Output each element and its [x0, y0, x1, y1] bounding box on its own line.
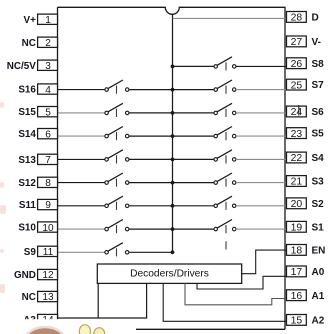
wire: switch S13 throw to D bus [129, 158, 173, 160]
label S15 (pin 5) [18, 107, 36, 118]
wire: switch S10 throw to D bus [129, 228, 173, 230]
decorative: yellow egg artifact 1 [79, 325, 90, 334]
wire: D bus to switch S4 pole [173, 158, 214, 160]
label S12 (pin 8) [18, 178, 36, 189]
decorative: pink edge smudge [0, 182, 4, 188]
label V- (pin 27) [312, 37, 321, 48]
junction node row 2 on D bus [171, 88, 175, 92]
label NC (pin 13) [22, 292, 36, 303]
svg-text:18: 18 [291, 246, 303, 257]
pin 7 box (S13) [38, 154, 58, 166]
label EN (pin 18) [312, 246, 326, 257]
wire: switch S9 throw to D bus [129, 251, 173, 253]
switch S11 (SPST analog switch) [105, 196, 129, 207]
svg-text:S14: S14 [18, 129, 36, 140]
wire: A2 pin 15 to decoder [163, 283, 286, 321]
svg-text:15: 15 [291, 316, 303, 327]
svg-text:EN: EN [312, 246, 326, 257]
switch S1 (SPST analog switch) [214, 220, 236, 231]
svg-text:V-: V- [312, 37, 321, 48]
svg-text:5: 5 [45, 107, 51, 118]
junction node row 7 on D bus [171, 204, 175, 208]
switch S15 (SPST analog switch) [105, 103, 129, 114]
pin 25 box (S7) [287, 79, 307, 91]
svg-text:A1: A1 [312, 291, 325, 302]
pin 19 box (S1) [287, 221, 307, 233]
wire: switch S4 throw to pin 22 [236, 158, 287, 160]
junction node row 8 on D bus [171, 227, 175, 231]
label NC (pin 2) [22, 38, 36, 49]
switch S16 (SPST analog switch) [105, 80, 129, 91]
wire: D bus to switch S3 pole [173, 182, 214, 184]
svg-text:1: 1 [45, 15, 51, 26]
wire: switch S5 throw to pin 23 [236, 135, 287, 137]
svg-text:22: 22 [291, 153, 303, 164]
pin 14 box (A3) [38, 314, 58, 326]
decorative: pink edge smudge [0, 284, 5, 293]
dashed control line from decoder (right switch bank) [225, 62, 227, 249]
pin 12 box (GND) [38, 269, 58, 281]
pin 6 box (S14) [38, 129, 58, 141]
decorative: pink edge smudge [0, 249, 4, 253]
svg-text:28: 28 [291, 13, 303, 24]
junction node row 9 on D bus [171, 250, 175, 254]
wire: D bus to switch S7 pole [173, 89, 214, 91]
switch S5 (SPST analog switch) [214, 127, 236, 138]
pin 1 box (V+) [38, 14, 58, 26]
switch S14 (SPST analog switch) [105, 127, 129, 138]
junction node row 1 on D bus [171, 65, 175, 69]
label S11 (pin 9) [19, 200, 37, 211]
svg-text:13: 13 [42, 292, 54, 303]
wire: pin 7 S13 stub to switch pole [58, 158, 105, 160]
pin 27 box (V-) [287, 36, 307, 48]
svg-text:S2: S2 [312, 199, 325, 210]
svg-text:23: 23 [291, 129, 303, 140]
switch S2 (SPST analog switch) [214, 196, 236, 207]
switch S4 (SPST analog switch) [214, 150, 236, 161]
pin 26 box (S8) [287, 58, 307, 70]
decorative: occluding white strip bottom-left [0, 319, 136, 334]
svg-text:20: 20 [291, 199, 303, 210]
label S5 (pin 23) [312, 129, 325, 140]
wire: switch S2 throw to pin 20 [236, 205, 287, 207]
wire: pin 10 S10 stub to switch pole [58, 228, 105, 230]
label S13 (pin 7) [18, 155, 36, 166]
label S6 (pin 24) [312, 107, 325, 118]
wire: A3 pin 14 to decoder (loop) [58, 283, 147, 318]
wire: pin 8 S12 stub to switch pole [58, 182, 105, 184]
svg-text:3: 3 [45, 61, 51, 72]
label NC/5V (pin 3) [7, 61, 36, 72]
wire: switch S1 throw to pin 19 [236, 228, 287, 230]
svg-text:A0: A0 [312, 267, 325, 278]
svg-text:S7: S7 [312, 80, 325, 91]
label S3 (pin 21) [312, 177, 325, 188]
pin 8 box (S12) [38, 177, 58, 189]
pin 9 box (S11) [38, 199, 58, 211]
pin 17 box (A0) [287, 266, 307, 278]
svg-text:17: 17 [291, 267, 303, 278]
wire: switch S7 throw to pin 25 [236, 89, 287, 91]
svg-text:S15: S15 [18, 107, 36, 118]
svg-text:S8: S8 [312, 59, 325, 70]
decorative: yellow egg artifact 2 [94, 328, 105, 334]
label S8 (pin 26) [312, 59, 325, 70]
svg-text:S5: S5 [312, 129, 325, 140]
pin 20 box (S2) [287, 198, 307, 210]
pin 11 box (S9) [38, 246, 58, 258]
svg-text:16: 16 [291, 291, 303, 302]
label S4 (pin 22) [312, 153, 325, 164]
svg-text:S6: S6 [312, 107, 325, 118]
svg-text:21: 21 [291, 177, 303, 188]
dashed control line from decoder (left switch bank) [116, 86, 118, 257]
label A1 (pin 16) [312, 291, 325, 302]
label S16 (pin 4) [18, 85, 36, 96]
pin 10 box (S10) [38, 222, 58, 234]
switch S10 (SPST analog switch) [105, 220, 129, 231]
svg-text:10: 10 [42, 223, 54, 234]
label V+ (pin 1) [24, 15, 37, 26]
pin 21 box (S3) [287, 176, 307, 188]
svg-text:24: 24 [291, 107, 303, 118]
svg-text:S16: S16 [18, 85, 36, 96]
pin 13 box (NC) [38, 291, 58, 303]
label S1 (pin 19) [312, 222, 325, 233]
wire: switch S16 throw to D bus [129, 89, 173, 91]
wire: A1 pin 16 to decoder [185, 283, 287, 304]
pin 5 box (S15) [38, 107, 58, 119]
label GND (pin 12) [14, 270, 36, 281]
pin 15 box (A2) [287, 315, 307, 327]
pin 24 box (S6) [287, 106, 307, 118]
switch S3 (SPST analog switch) [214, 173, 236, 184]
wire: partial body bottom edge [136, 328, 285, 330]
wire: D bus to switch S8 pole [173, 65, 214, 67]
switch S8 (SPST analog switch) [214, 57, 236, 68]
switch S6 (SPST analog switch) [214, 103, 236, 114]
junction node row 6 on D bus [171, 181, 175, 185]
IC body outline U1 (DIP-28) with pin-1 notch [58, 7, 286, 329]
svg-text:19: 19 [291, 223, 303, 234]
wire: switch S15 throw to D bus [129, 112, 173, 114]
pin 16 box (A1) [287, 290, 307, 302]
svg-text:27: 27 [291, 37, 303, 48]
junction node row 4 on D bus [171, 134, 175, 138]
pin 4 box (S16) [38, 84, 58, 96]
svg-text:7: 7 [45, 155, 51, 166]
svg-text:Decoders/Drivers: Decoders/Drivers [130, 269, 209, 280]
svg-text:V+: V+ [24, 15, 37, 26]
svg-text:2: 2 [45, 38, 51, 49]
pin 28 box (D) [287, 12, 307, 24]
svg-text:S10: S10 [18, 223, 36, 234]
svg-text:D: D [312, 13, 319, 24]
svg-text:4: 4 [45, 85, 51, 96]
svg-text:11: 11 [43, 247, 54, 258]
svg-text:NC: NC [22, 292, 36, 303]
decorative: pink edge smudge [0, 205, 6, 214]
svg-text:6: 6 [45, 129, 51, 140]
text cursor artifact in pin 24 box [298, 105, 300, 116]
wire: switch S11 throw to D bus [129, 205, 173, 207]
pin 2 box (NC) [38, 37, 58, 49]
label S14 (pin 6) [18, 129, 36, 140]
pin 3 box (NC/5V) [38, 60, 58, 72]
svg-text:S4: S4 [312, 153, 325, 164]
label A0 (pin 17) [312, 267, 325, 278]
wire: D bus to switch S6 pole [173, 112, 214, 114]
svg-text:9: 9 [45, 200, 51, 211]
pin 22 box (S4) [287, 152, 307, 164]
label A3 (pin 14) [23, 315, 36, 326]
pin 18 box (EN) [287, 245, 307, 257]
label S10 (pin 10) [18, 223, 36, 234]
switch S12 (SPST analog switch) [105, 173, 129, 184]
svg-text:NC: NC [22, 38, 36, 49]
wire: D bus to switch S1 pole [173, 228, 214, 230]
svg-text:S9: S9 [24, 247, 37, 258]
wire: pin 9 S11 stub to switch pole [58, 205, 105, 207]
label A2 (pin 15) [312, 316, 325, 327]
svg-text:S11: S11 [19, 200, 37, 211]
svg-text:S12: S12 [18, 178, 36, 189]
switch S9 (SPST analog switch) [105, 243, 129, 254]
label S7 (pin 25) [312, 80, 325, 91]
wire: switch S6 throw to pin 24 [236, 112, 287, 114]
decorative: pink edge smudge [0, 102, 4, 108]
wire: D bus to switch S5 pole [173, 135, 214, 137]
switch S13 (SPST analog switch) [105, 150, 129, 161]
pin 23 box (S5) [287, 128, 307, 140]
svg-text:8: 8 [45, 178, 51, 189]
wire: switch S8 throw to pin 26 [236, 65, 287, 67]
wire: switch S3 throw to pin 21 [236, 182, 287, 184]
wire: switch S14 throw to D bus [129, 135, 173, 137]
wire: D bus to switch S2 pole [173, 205, 214, 207]
svg-text:S13: S13 [18, 155, 36, 166]
svg-text:12: 12 [42, 270, 54, 281]
svg-text:A2: A2 [312, 316, 325, 327]
svg-text:25: 25 [291, 80, 303, 91]
label S2 (pin 20) [312, 199, 325, 210]
svg-text:NC/5V: NC/5V [7, 61, 36, 72]
junction node row 5 on D bus [171, 158, 175, 162]
wire: switch S12 throw to D bus [129, 182, 173, 184]
wire: pin 11 S9 stub to switch pole [58, 251, 105, 253]
wire: pin 6 S14 stub to switch pole [58, 135, 105, 137]
switch S7 (SPST analog switch) [214, 80, 236, 91]
svg-text:S3: S3 [312, 177, 325, 188]
svg-text:26: 26 [291, 59, 303, 70]
svg-text:GND: GND [14, 270, 36, 281]
wire: pin 5 S15 stub to switch pole [58, 112, 105, 114]
label D (pin 28) [312, 13, 319, 24]
wire: D output to pin 28 [173, 17, 287, 19]
wire: A0 pin 17 to decoder [197, 276, 287, 289]
svg-text:S1: S1 [312, 222, 325, 233]
decorative: pink arc artifact [25, 327, 66, 334]
node D bus (vertical) [172, 14, 174, 252]
junction node row 3 on D bus [171, 111, 175, 115]
wire: EN pin 18 to decoder [242, 250, 287, 274]
decoder block: Decoders/Drivers [97, 264, 241, 283]
wire: pin 4 S16 stub to switch pole [58, 89, 105, 91]
label S9 (pin 11) [24, 247, 37, 258]
